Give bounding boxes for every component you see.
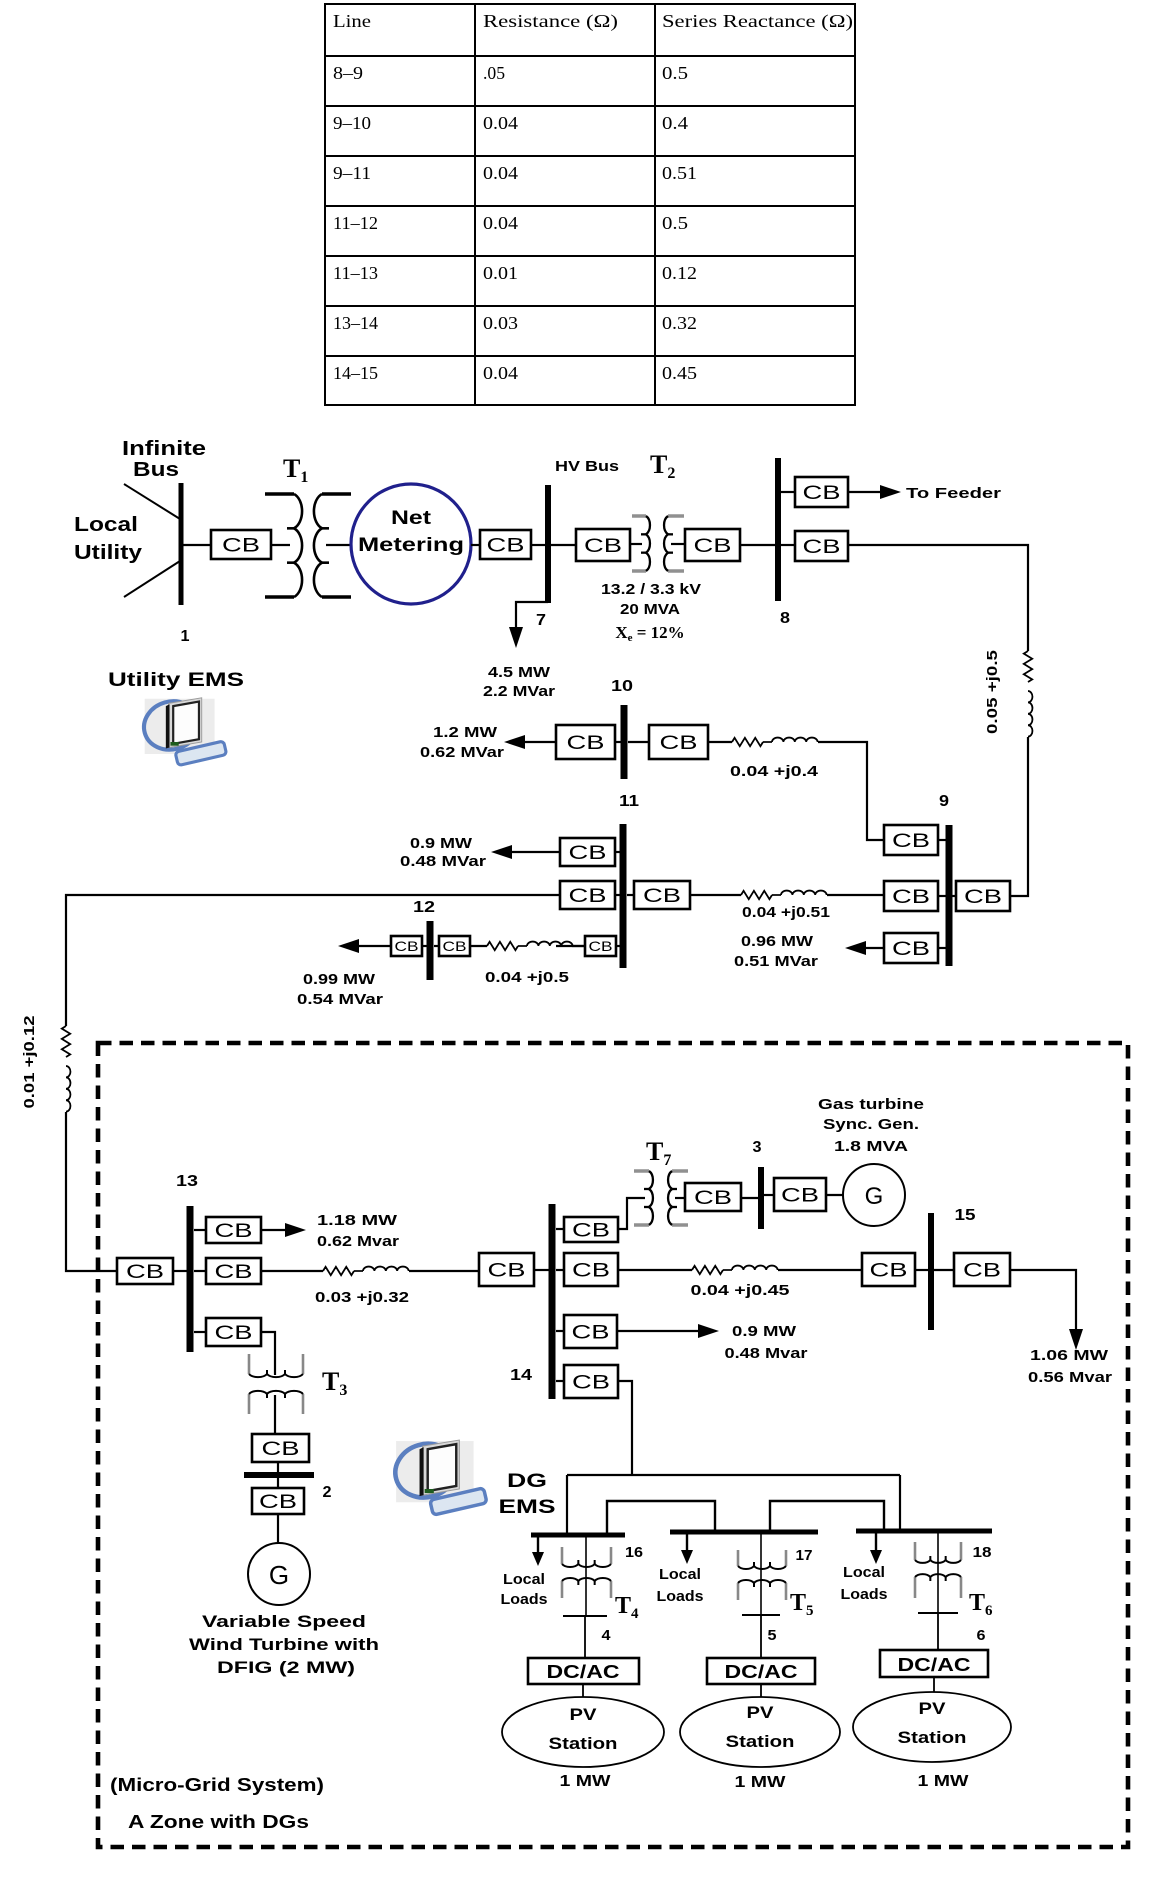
line-impedance data table [325, 4, 855, 405]
wire bus5 to DC/AC [760, 1615, 762, 1658]
wire line 8-9 horizontal [848, 545, 1028, 651]
svg-text:0.48 MVar: 0.48 MVar [400, 853, 486, 870]
svg-text:9–10: 9–10 [333, 113, 371, 133]
svg-text:Metering: Metering [358, 535, 464, 556]
wire bus14-cb r3 [556, 1330, 564, 1332]
wire bus14 load line [617, 1330, 700, 1332]
arrowhead local load 16 [532, 1552, 544, 1566]
wire bus2 to CB [277, 1478, 279, 1488]
arrowhead load bus10 [504, 735, 525, 749]
bus 3 [758, 1167, 764, 1229]
svg-text:13–14: 13–14 [333, 313, 378, 333]
svg-text:(Micro-Grid System): (Micro-Grid System) [110, 1775, 324, 1795]
wire CB to bus7 [531, 544, 546, 546]
line impedance line 14-15 (0.04+j0.45) [692, 1266, 778, 1275]
svg-text:1.2 MW: 1.2 MW [433, 724, 498, 741]
circuit breaker line1314-bus14 [479, 1253, 534, 1286]
svg-text:Series Reactance (Ω): Series Reactance (Ω) [662, 11, 853, 31]
bus 8 [775, 458, 781, 601]
svg-text:1 MW: 1 MW [918, 1773, 970, 1790]
wire net metering to CB [471, 544, 480, 546]
svg-text:Resistance (Ω): Resistance (Ω) [483, 11, 618, 31]
svg-text:14: 14 [510, 1367, 532, 1384]
circuit breaker bus11-line1113 [560, 881, 615, 909]
svg-text:Station: Station [549, 1734, 618, 1753]
svg-text:Local: Local [503, 1571, 545, 1588]
svg-text:Net: Net [391, 508, 432, 529]
svg-text:1.06 MW: 1.06 MW [1030, 1347, 1109, 1364]
wire bus16 local load [537, 1537, 539, 1556]
PV station 3 [853, 1692, 1011, 1762]
svg-text:CB: CB [262, 1439, 300, 1460]
wire line 13-14 a [261, 1270, 323, 1272]
circuit breaker bus2-G [252, 1488, 304, 1514]
svg-text:0.04 +j0.5: 0.04 +j0.5 [485, 969, 569, 986]
wire bus9 load line [865, 947, 884, 949]
svg-text:PV: PV [919, 1699, 947, 1718]
svg-text:PV: PV [570, 1705, 598, 1724]
infinite source lines [124, 484, 180, 519]
svg-text:CB: CB [660, 733, 698, 754]
wire cb to bus9 r1 [938, 839, 946, 841]
circuit breaker bus3-G [774, 1178, 826, 1211]
svg-text:Bus: Bus [133, 459, 179, 481]
wire bus13-cb r1 [194, 1229, 206, 1231]
svg-text:1 MW: 1 MW [560, 1773, 612, 1790]
arrowhead load bus7 [509, 627, 523, 648]
svg-text:Xe = 12%: Xe = 12% [615, 623, 684, 644]
wire line 9-11 a [690, 894, 741, 896]
arrowhead load bus11 [491, 845, 512, 859]
svg-text:1.8 MVA: 1.8 MVA [834, 1138, 908, 1155]
net metering circle [351, 484, 471, 604]
wire bus18 to T6 [937, 1533, 939, 1613]
wire bus11 load line [510, 851, 560, 853]
svg-text:11–12: 11–12 [333, 213, 378, 233]
wire line 8-9 vertical [1010, 737, 1028, 896]
svg-text:CB: CB [569, 886, 607, 907]
svg-text:2.2 MVar: 2.2 MVar [483, 683, 555, 700]
wire line 9-11 b [827, 894, 884, 896]
svg-text:G: G [865, 1183, 884, 1210]
circuit breaker bus12 left [391, 936, 422, 956]
wire bus12 load line [357, 945, 391, 947]
line impedance line 11-13 (0.01+j0.12) [62, 1026, 71, 1112]
bus 4 [563, 1615, 607, 1617]
svg-text:CB: CB [126, 1262, 164, 1283]
wire cb-bus15 [915, 1269, 928, 1271]
svg-text:DC/AC: DC/AC [898, 1655, 971, 1675]
bus 1 [179, 483, 184, 605]
wire cb-bus14 l [534, 1269, 549, 1271]
svg-text:Line: Line [333, 11, 371, 31]
line impedance line 13-14 (0.03+j0.32) [323, 1267, 409, 1276]
svg-text:1: 1 [181, 628, 190, 645]
svg-text:Station: Station [726, 1732, 795, 1751]
circuit breaker bus14-T7 [564, 1217, 618, 1242]
bus 9 [946, 825, 953, 966]
bus 6 [918, 1612, 958, 1614]
wire bus4 to DC/AC [584, 1616, 586, 1658]
svg-text:CB: CB [964, 887, 1002, 908]
wire cb to gas G [826, 1194, 843, 1196]
svg-text:11: 11 [619, 793, 639, 810]
svg-text:12: 12 [413, 899, 435, 916]
arrowhead load bus12 [338, 939, 359, 953]
svg-text:0.99 MW: 0.99 MW [303, 971, 376, 988]
svg-text:Local: Local [74, 514, 138, 536]
wire cb-bus11 r2 [615, 894, 620, 896]
wire line 11-13 horizontal [66, 895, 560, 1026]
svg-text:CB: CB [567, 733, 605, 754]
svg-text:0.48 Mvar: 0.48 Mvar [725, 1345, 808, 1362]
bus 5 [742, 1614, 780, 1616]
svg-text:0.5: 0.5 [662, 63, 688, 83]
svg-text:0.51: 0.51 [662, 163, 697, 183]
wire bus16 to T4 [585, 1537, 587, 1616]
wire bus18 local load [875, 1533, 877, 1554]
svg-text:9–11: 9–11 [333, 163, 371, 183]
wire cb-bus12 [422, 945, 427, 947]
svg-text:DC/AC: DC/AC [725, 1662, 798, 1682]
svg-text:16: 16 [625, 1544, 643, 1561]
wire CB-bus10 l [615, 741, 621, 743]
circuit breaker bus14-line1415 [564, 1253, 618, 1286]
generator G (wind) [248, 1543, 310, 1605]
svg-text:14–15: 14–15 [333, 363, 378, 383]
svg-text:0.4: 0.4 [662, 113, 688, 133]
line impedance line 11-12 (0.04+j0.5) [487, 942, 573, 951]
wire cb-bus11 r1 [615, 851, 620, 853]
svg-text:Utility EMS: Utility EMS [108, 670, 244, 691]
svg-text:G: G [269, 1560, 289, 1590]
svg-text:.05: .05 [483, 63, 505, 83]
wire drop to bus16 a [566, 1475, 568, 1535]
svg-text:1.18 MW: 1.18 MW [317, 1212, 398, 1229]
line impedance line 9-11 (0.04+j0.51) [741, 891, 827, 900]
svg-text:8: 8 [780, 610, 790, 627]
wire bus14-cb r4 [556, 1380, 564, 1382]
wire line 11-12 lead2 [572, 945, 585, 947]
circuit breaker bus14-feeder [564, 1365, 618, 1398]
micro-grid zone dashed border [98, 1043, 1128, 1847]
bus 11 [620, 824, 627, 968]
svg-text:0.62 Mvar: 0.62 Mvar [317, 1233, 399, 1250]
svg-text:A Zone with DGs: A Zone with DGs [128, 1812, 309, 1832]
circuit breaker T3-bus2 [252, 1434, 309, 1462]
circuit breaker bus13-line1314 [206, 1258, 261, 1284]
wire tie 17-18 [770, 1501, 884, 1532]
svg-text:CB: CB [781, 1185, 819, 1206]
svg-text:3: 3 [753, 1139, 762, 1156]
svg-text:13.2 / 3.3 kV: 13.2 / 3.3 kV [601, 581, 701, 598]
circuit breaker T7-bus3 [685, 1183, 741, 1211]
svg-text:CB: CB [395, 938, 419, 954]
svg-text:CB: CB [222, 535, 260, 556]
svg-text:CB: CB [963, 1260, 1001, 1281]
bus 14 [549, 1204, 556, 1399]
circuit breaker bus8-line89 [795, 531, 848, 561]
wire bus8 to feeder CB [781, 491, 795, 493]
svg-text:Variable Speed: Variable Speed [202, 1612, 366, 1631]
wire line 9-10 b [818, 742, 884, 840]
wire cb-bus11 r3 [616, 945, 620, 947]
circuit breaker bus9-line89 [956, 881, 1010, 911]
svg-text:CB: CB [569, 843, 607, 864]
circuit breaker bus10-load [556, 725, 615, 759]
svg-text:CB: CB [892, 939, 930, 960]
arrowhead load bus14 [698, 1324, 719, 1338]
wire line 14-15 a [618, 1269, 692, 1271]
svg-text:CB: CB [487, 535, 525, 556]
svg-text:Wind Turbine with: Wind Turbine with [189, 1635, 379, 1654]
svg-text:CB: CB [892, 831, 930, 852]
transformer T2 [632, 516, 684, 571]
wire bus14-cb r0 [556, 1228, 564, 1230]
wire cb to T7 [618, 1198, 645, 1229]
transformer T4 [562, 1547, 611, 1598]
wire DC/AC to PV 1 [582, 1684, 584, 1698]
wire to feeder [848, 491, 882, 493]
svg-text:CB: CB [572, 1220, 610, 1241]
transformer T3 [249, 1354, 303, 1414]
wire bus10 load [521, 741, 556, 743]
wire bus14-cb r2 [556, 1269, 564, 1271]
circuit breaker bus15-load [954, 1253, 1010, 1286]
PV station 1 [502, 1697, 664, 1767]
svg-text:CB: CB [215, 1262, 253, 1283]
arrowhead to feeder [880, 485, 901, 499]
wire DC/AC to PV 2 [760, 1684, 762, 1697]
circuit breaker bus13-T3 [206, 1318, 261, 1346]
svg-text:2: 2 [323, 1484, 332, 1501]
arrowhead local load 17 [681, 1550, 693, 1564]
svg-text:CB: CB [803, 537, 841, 558]
svg-text:18: 18 [973, 1544, 992, 1561]
svg-text:Loads: Loads [841, 1586, 888, 1603]
wire bus13-cb r3 [194, 1331, 206, 1333]
circuit breaker line1113-bus13 [117, 1258, 173, 1284]
svg-text:CB: CB [870, 1260, 908, 1281]
svg-text:0.01 +j0.12: 0.01 +j0.12 [21, 1016, 38, 1109]
svg-text:PV: PV [747, 1703, 775, 1722]
wire line 9-10 a [708, 741, 732, 743]
circuit breaker bus11-line1112 [585, 936, 616, 956]
svg-text:0.01: 0.01 [483, 263, 518, 283]
wire bus17 local load [686, 1534, 688, 1554]
svg-text:CB: CB [572, 1260, 610, 1281]
circuit breaker bus9-line911 [884, 881, 938, 911]
svg-text:CB: CB [694, 536, 732, 557]
svg-text:0.03: 0.03 [483, 313, 518, 333]
line impedance line 9-10 (0.04+j0.4) [732, 738, 818, 747]
svg-text:1 MW: 1 MW [735, 1774, 787, 1791]
bus 16 [531, 1533, 625, 1538]
wire bus15 load line [1010, 1270, 1076, 1338]
svg-text:9: 9 [939, 793, 949, 810]
svg-text:CB: CB [892, 887, 930, 908]
circuit breaker bus9-line910 [884, 825, 938, 855]
bus 13 [187, 1206, 194, 1352]
bus 12 [427, 921, 434, 980]
wire bus13-cb r2 [194, 1270, 206, 1272]
wire bus9 to cb r2r [952, 895, 956, 897]
svg-text:11–13: 11–13 [333, 263, 378, 283]
DC/AC converter (PV 1) [528, 1658, 639, 1684]
wire bus15-cb r [934, 1269, 954, 1271]
svg-text:0.04 +j0.51: 0.04 +j0.51 [742, 904, 830, 921]
svg-text:HV Bus: HV Bus [555, 458, 619, 475]
svg-text:CB: CB [589, 938, 613, 954]
svg-text:CB: CB [572, 1322, 610, 1343]
svg-text:CB: CB [694, 1188, 732, 1209]
svg-text:8–9: 8–9 [333, 63, 363, 83]
wire T1 to net metering [326, 544, 351, 546]
bus 17 [670, 1530, 818, 1535]
svg-text:5: 5 [768, 1627, 777, 1644]
svg-text:20 MVA: 20 MVA [620, 601, 680, 618]
arrowhead local load 18 [870, 1550, 882, 1564]
wire bus3-cb [764, 1194, 774, 1196]
wire CB to T1 [271, 544, 290, 546]
transformer T5 [738, 1550, 786, 1600]
wire bus7 to CB [551, 544, 576, 546]
svg-text:DFIG (2 MW): DFIG (2 MW) [217, 1658, 355, 1677]
wire line 11-13 vertical [66, 1112, 117, 1271]
circuit breaker bus7-T2 [576, 529, 630, 561]
wire bus12-cb [434, 945, 439, 947]
wire bus17 to T5 [760, 1534, 762, 1615]
svg-text:0.05 +j0.5: 0.05 +j0.5 [984, 650, 1001, 734]
svg-text:0.04: 0.04 [483, 163, 518, 183]
wire line 11-12 a [556, 945, 585, 947]
svg-text:0.04: 0.04 [483, 363, 518, 383]
svg-text:Sync. Gen.: Sync. Gen. [823, 1116, 919, 1133]
svg-text:CB: CB [443, 938, 467, 954]
wire line 8-9 upper [781, 544, 795, 546]
bus 18 [856, 1529, 992, 1534]
transformer T7 [634, 1171, 688, 1225]
svg-text:7: 7 [536, 612, 546, 629]
circuit breaker bus8-feeder [795, 477, 848, 507]
svg-text:0.32: 0.32 [662, 313, 697, 333]
wire bus1 to CB [183, 544, 211, 546]
circuit breaker bus11-line911 [634, 881, 690, 909]
svg-text:0.04: 0.04 [483, 213, 518, 233]
svg-text:0.96 MW: 0.96 MW [741, 933, 814, 950]
circuit breaker bus1-T1 [211, 530, 271, 559]
wire DG feeder bus16-bus18 [567, 1474, 900, 1476]
wire cb to wind G [277, 1514, 279, 1543]
svg-text:17: 17 [796, 1547, 813, 1564]
DC/AC converter (PV 2) [707, 1658, 815, 1684]
svg-text:CB: CB [488, 1260, 526, 1281]
svg-text:CB: CB [643, 886, 681, 907]
svg-text:CB: CB [803, 483, 841, 504]
wire bus11-cb r2r [627, 894, 634, 896]
generator G (gas turbine) [843, 1164, 905, 1226]
wire tie 16-17 [607, 1501, 715, 1535]
transformer T6 [915, 1542, 961, 1598]
wire bus13 load line [261, 1229, 288, 1231]
svg-text:To Feeder: To Feeder [906, 485, 1001, 502]
wire cb to T3 [261, 1332, 275, 1375]
wire bus6 to DC/AC [937, 1613, 939, 1650]
bus 10 [621, 705, 628, 779]
svg-text:0.54 MVar: 0.54 MVar [297, 991, 383, 1008]
svg-text:Local: Local [659, 1566, 701, 1583]
svg-text:0.5: 0.5 [662, 213, 688, 233]
svg-text:Utility: Utility [74, 542, 143, 564]
svg-text:DG: DG [507, 1471, 547, 1492]
svg-text:EMS: EMS [499, 1497, 556, 1518]
wire DG feeder drop [618, 1381, 632, 1475]
svg-text:0.12: 0.12 [662, 263, 697, 283]
wire cb to bus9 r2 [938, 895, 946, 897]
svg-text:0.04 +j0.45: 0.04 +j0.45 [691, 1282, 790, 1299]
svg-text:15: 15 [955, 1207, 976, 1224]
wire line 11-12 lead [470, 945, 487, 947]
arrowhead load bus13 [285, 1223, 306, 1237]
transformer T1 [265, 494, 351, 597]
circuit breaker bus11-load [560, 838, 615, 866]
wire line 14-15 b [778, 1269, 862, 1271]
bus 15 [928, 1213, 934, 1330]
DC/AC converter (PV 3) [880, 1650, 988, 1677]
svg-text:6: 6 [977, 1627, 986, 1644]
svg-text:CB: CB [215, 1323, 253, 1344]
wire bus10-CB r [628, 741, 649, 743]
svg-text:Loads: Loads [501, 1591, 548, 1608]
wire drop to bus18 a [899, 1475, 901, 1531]
wire T7 to CB [675, 1197, 685, 1199]
svg-text:0.04: 0.04 [483, 113, 518, 133]
svg-text:CB: CB [584, 536, 622, 557]
svg-text:0.62 MVar: 0.62 MVar [420, 744, 504, 761]
wire CB to T2 [630, 543, 642, 545]
circuit breaker bus9-load [884, 933, 938, 963]
svg-text:0.45: 0.45 [662, 363, 697, 383]
circuit breaker line1415-bus15 [862, 1253, 915, 1286]
circuit breaker bus14-load [564, 1315, 617, 1348]
wire DC/AC to PV 3 [933, 1677, 935, 1692]
svg-text:4: 4 [602, 1627, 612, 1644]
wire T3 to CB [274, 1395, 276, 1434]
bus 7 (HV bus) [545, 485, 551, 603]
circuit breaker netmeter-bus7 [480, 530, 531, 559]
svg-text:0.56 Mvar: 0.56 Mvar [1028, 1369, 1112, 1386]
svg-text:0.9 MW: 0.9 MW [410, 835, 473, 852]
svg-text:Infinite: Infinite [122, 438, 206, 460]
svg-text:0.04 +j0.4: 0.04 +j0.4 [730, 763, 819, 780]
svg-text:DC/AC: DC/AC [547, 1662, 620, 1682]
svg-text:4.5 MW: 4.5 MW [488, 664, 551, 681]
svg-text:CB: CB [259, 1492, 297, 1513]
svg-text:0.51 MVar: 0.51 MVar [734, 953, 818, 970]
line impedance line 8-9 (0.05+j0.5) [1024, 651, 1033, 737]
svg-text:0.03 +j0.32: 0.03 +j0.32 [315, 1289, 409, 1306]
svg-text:Loads: Loads [657, 1588, 704, 1605]
svg-text:Local: Local [843, 1564, 885, 1581]
wire T2 to CB [671, 543, 685, 545]
wire cb-bus13 [173, 1270, 187, 1272]
svg-text:Station: Station [898, 1728, 967, 1747]
wire line 13-14 b [409, 1270, 479, 1272]
svg-text:13: 13 [176, 1173, 198, 1190]
circuit breaker bus10-line910 [649, 725, 708, 759]
svg-text:10: 10 [611, 678, 633, 695]
wire bus7 load stub [516, 602, 548, 638]
